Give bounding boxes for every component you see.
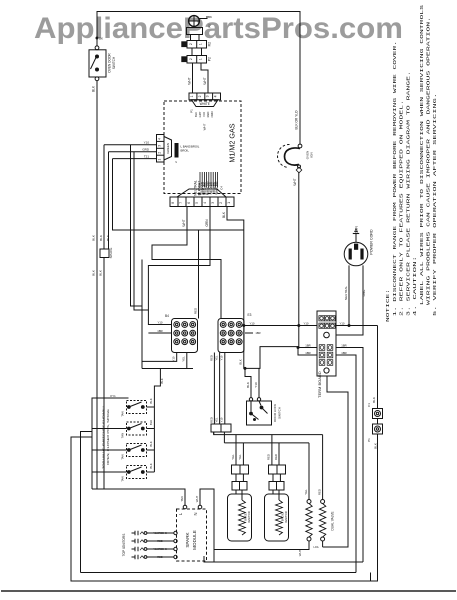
connector P1 WHITE 4-pin [189, 93, 221, 100]
wire YEL to dual valve [308, 443, 310, 500]
spark module left terminals [174, 531, 177, 534]
svg-text:Y10: Y10 [144, 141, 150, 145]
svg-text:BLK: BLK [238, 359, 242, 364]
svg-text:1BR: 1BR [157, 329, 162, 333]
svg-text:BK: BK [208, 15, 212, 19]
svg-text:WHT: WHT [203, 77, 207, 84]
oven lamp B1 [189, 16, 200, 27]
svg-text:6: 6 [187, 202, 191, 204]
wire BLK from door switch down left side [96, 81, 98, 489]
svg-text:NEUTRAL: NEUTRAL [344, 286, 348, 300]
term board mid screw [324, 332, 330, 338]
svg-text:IGNITOR: IGNITOR [284, 511, 288, 523]
svg-text:BLK: BLK [373, 443, 377, 449]
svg-text:4: 4 [157, 138, 161, 140]
wires from green connector [104, 144, 157, 146]
svg-text:1: 1 [190, 95, 194, 97]
svg-text:RED: RED [157, 555, 163, 559]
wire bus Y10 term board [244, 325, 317, 327]
svg-text:BLK: BLK [99, 235, 103, 241]
svg-text:BROIL: BROIL [181, 149, 190, 153]
svg-text:P1: P1 [189, 109, 193, 113]
wire ORN from board to grid1 [148, 207, 210, 311]
svg-text:GRY: GRY [198, 111, 202, 117]
wire WHT pair down to white connector [192, 63, 194, 93]
svg-text:1. DISCONNECT RANGE FROM POWER: 1. DISCONNECT RANGE FROM POWER BEFORE RE… [392, 41, 398, 316]
svg-text:4: 4 [214, 95, 218, 97]
svg-text:TERM BOARD: TERM BOARD [317, 371, 322, 398]
frame line inner [204, 556, 363, 562]
svg-text:YEL: YEL [182, 356, 186, 362]
wires grid2 bottom drops [213, 353, 215, 425]
svg-text:3: 3 [157, 145, 161, 147]
svg-text:E3: E3 [248, 313, 252, 317]
wire Y10 to lock switch [258, 368, 260, 397]
TAN bus left [92, 398, 129, 489]
svg-text:Y10/RED-C: Y10/RED-C [153, 547, 167, 551]
svg-text:YEL: YEL [304, 489, 308, 495]
svg-text:WIRING PROBLEMS CAN CAUSE IMPR: WIRING PROBLEMS CAN CAUSE IMPROPER AND D… [426, 17, 432, 305]
connector grid P3 (left) [172, 319, 198, 353]
svg-text:Y10: Y10 [250, 321, 255, 325]
valve switch 1 [127, 401, 147, 414]
wire grid1 bottom Y10 loop [142, 353, 177, 362]
bus B1 [213, 432, 215, 435]
BAKE ignitor [228, 494, 252, 541]
spark electrode P1 [373, 424, 383, 434]
svg-text:DUAL VALVE: DUAL VALVE [331, 511, 335, 530]
svg-text:2: 2 [219, 202, 223, 204]
svg-text:LOA: LOA [313, 546, 318, 549]
connector row1 BAKE [232, 465, 249, 474]
svg-text:BLK: BLK [149, 463, 153, 468]
svg-text:Y10: Y10 [254, 382, 258, 388]
svg-text:ORN: ORN [205, 219, 209, 227]
svg-text:1: 1 [227, 202, 231, 204]
svg-text:1BR: 1BR [341, 343, 346, 347]
svg-text:YEL: YEL [215, 355, 219, 361]
svg-text:WHT: WHT [293, 178, 297, 185]
svg-text:YEL: YEL [238, 454, 242, 460]
BLK bus right of valve switches [154, 369, 160, 473]
svg-text:RED: RED [267, 454, 271, 460]
term board bottom screw [324, 368, 329, 373]
svg-text:4. CAUTION:: 4. CAUTION: [412, 256, 418, 316]
oven igniter IGN [298, 144, 302, 148]
wire LINE [336, 265, 363, 335]
svg-text:WHT: WHT [187, 77, 191, 84]
svg-text:TOP IGNITORS: TOP IGNITORS [122, 534, 126, 557]
connector P5 8-pin bottom [170, 197, 234, 207]
connector GREEN 4-pin left [157, 135, 165, 163]
wire P1 down right frame [71, 434, 378, 581]
wire grid1 bottom YEL [186, 353, 188, 369]
wire T21 down and right bus [113, 159, 244, 230]
valve switch frame corner [81, 432, 93, 573]
trapezoid BL/WH [177, 189, 226, 197]
wire drop x142 [141, 260, 143, 369]
svg-text:4: 4 [203, 202, 207, 204]
svg-text:T21: T21 [144, 154, 150, 158]
svg-text:B4: B4 [165, 314, 169, 318]
wire Y10 down to P3 grid1 [131, 145, 143, 306]
svg-text:1: 1 [199, 58, 203, 60]
svg-text:1BR: 1BR [305, 343, 310, 347]
wire WHT dual valve bottom [214, 541, 309, 550]
wire term board bottom [323, 376, 348, 547]
wire BLK to C1 [377, 326, 379, 409]
svg-text:TAN: TAN [120, 433, 124, 438]
svg-text:P2: P2 [208, 24, 212, 28]
svg-text:GREEN: GREEN [166, 143, 170, 154]
wire bus y368 [142, 368, 193, 370]
svg-text:BLK: BLK [222, 211, 226, 218]
svg-text:SPARK: SPARK [185, 531, 190, 547]
wire WHT igniter down [298, 172, 300, 326]
svg-text:3: 3 [206, 95, 210, 97]
svg-text:NOTICE:: NOTICE: [385, 289, 391, 322]
term board lower grid [319, 345, 325, 351]
frame stub right [370, 573, 372, 582]
wire RED to dual valve [322, 435, 324, 500]
svg-text:1: 1 [157, 158, 161, 160]
term board top grid [319, 316, 324, 321]
svg-text:2: 2 [157, 152, 161, 154]
svg-text:GRD: GRD [142, 148, 150, 152]
wire dual valve right bottom [322, 541, 324, 547]
page bottom rule [1, 590, 456, 592]
svg-text:BLK: BLK [92, 235, 96, 241]
spark module dashed box [177, 509, 207, 561]
svg-text:ORN: ORN [210, 111, 214, 117]
wire GRD down joins bundle [134, 152, 148, 310]
svg-text:M1/M2 GAS: M1/M2 GAS [228, 123, 237, 162]
wire WHT N [200, 489, 214, 562]
svg-text:BLK: BLK [246, 382, 250, 388]
svg-text:BK: BK [99, 37, 103, 41]
svg-text:N: N [193, 512, 198, 515]
wire WHT from board down-left [152, 207, 221, 319]
connector row2 BAKE [232, 482, 247, 491]
svg-text:WHT: WHT [203, 123, 207, 130]
svg-text:IGNITOR: IGNITOR [247, 511, 251, 523]
svg-text:2: 2 [189, 58, 193, 60]
svg-text:KY1: KY1 [110, 394, 116, 398]
dual valve [307, 500, 311, 504]
trapezoid WHITE [192, 100, 219, 107]
svg-text:1BR: 1BR [305, 351, 310, 355]
svg-text:5: 5 [195, 202, 199, 204]
svg-text:RED: RED [209, 355, 213, 361]
svg-text:SWITCH: SWITCH [277, 407, 281, 419]
svg-text:OPEN, CLOSED POS, SPKGE: OPEN, CLOSED POS, SPKGE [106, 409, 110, 465]
wire GRN ground [355, 234, 357, 243]
svg-text:LABEL ALL WIRES PRIOR TO DISCO: LABEL ALL WIRES PRIOR TO DISCONNECTION W… [419, 5, 425, 305]
svg-text:WHITE: WHITE [200, 102, 210, 106]
wire BLK from board to term board rows [227, 207, 317, 369]
svg-text:BLK: BLK [149, 398, 153, 403]
svg-text:WHT: WHT [298, 550, 302, 557]
svg-text:RED: RED [274, 454, 278, 460]
svg-text:P2: P2 [208, 57, 212, 61]
svg-text:Y10: Y10 [171, 356, 175, 361]
bus B2 [223, 432, 225, 443]
wire x298 WHT to junction [298, 326, 300, 348]
svg-text:BLK: BLK [372, 397, 376, 403]
svg-text:TAN: TAN [120, 476, 124, 481]
svg-text:2: 2 [189, 43, 193, 45]
svg-text:Y10: Y10 [340, 321, 345, 325]
svg-text:IGN: IGN [310, 152, 314, 157]
wire RED grid1 top [198, 230, 200, 319]
svg-text:Y10: Y10 [158, 320, 163, 324]
control board M1/M2 GAS dashed outline [164, 101, 241, 194]
svg-text:YEL: YEL [231, 454, 235, 460]
wire 1BR stub grid2 [245, 332, 253, 334]
svg-text:C4: C4 [220, 186, 224, 190]
wire pins R2 to P2 [191, 48, 193, 56]
svg-text:POWER CORD: POWER CORD [370, 229, 374, 255]
svg-text:BLK OR YLO: BLK OR YLO [294, 110, 298, 129]
svg-text:Y10/RED-C: Y10/RED-C [153, 531, 167, 535]
svg-text:YEL: YEL [215, 417, 219, 423]
svg-text:Y10: Y10 [220, 355, 224, 360]
svg-text:BLK: BLK [92, 270, 96, 276]
svg-text:TAN: TAN [120, 454, 124, 459]
svg-text:RED: RED [193, 307, 197, 314]
connector row1 BROIL [269, 465, 286, 474]
svg-text:Y10: Y10 [220, 417, 224, 422]
svg-text:3: 3 [211, 202, 215, 204]
svg-text:AppliancePartsPros.com: AppliancePartsPros.com [34, 12, 403, 45]
svg-text:RED: RED [209, 417, 213, 423]
labels BLK bake/broil [175, 143, 179, 158]
junction dot node BK [96, 37, 99, 40]
svg-text:Y10: Y10 [304, 321, 309, 325]
svg-text:TOP VALVE SWITCHES SHOWN I-: TOP VALVE SWITCHES SHOWN I- [102, 405, 106, 469]
svg-text:LINE: LINE [362, 290, 366, 297]
svg-text:TAN: TAN [120, 411, 124, 416]
svg-text:BLK: BLK [160, 378, 164, 383]
svg-text:BLK: BLK [149, 420, 153, 425]
svg-text:RED: RED [317, 489, 321, 495]
svg-text:8: 8 [171, 202, 175, 204]
svg-text:TAN: TAN [180, 496, 184, 501]
spark electrode C1 [373, 409, 383, 419]
svg-text:RED: RED [157, 539, 163, 543]
oven door switch SW1 [95, 46, 99, 50]
svg-text:2. REFER ONLY TO FEATURES EQUI: 2. REFER ONLY TO FEATURES EQUIPPED ON MO… [399, 100, 405, 316]
connector row2 BROIL [269, 482, 284, 491]
wire TAN L [92, 489, 185, 505]
svg-text:WHT: WHT [182, 219, 186, 226]
splice [100, 249, 109, 258]
wire NEUTRAL [348, 265, 350, 325]
svg-text:BLK: BLK [106, 235, 110, 241]
frame line inner-left [81, 572, 357, 574]
valve switch 3 [127, 444, 147, 457]
wires into splice [103, 145, 105, 249]
wire below splice [103, 258, 105, 490]
door lock switch [249, 398, 252, 401]
terminal board outline [317, 311, 336, 376]
wire top rail from door switch to igniter drop [97, 12, 300, 145]
svg-text:P1: P1 [367, 438, 371, 442]
svg-text:5. VERIFY PROPER OPERATION AFT: 5. VERIFY PROPER OPERATION AFTER SERVICI… [432, 93, 438, 316]
wire BLK to lock switch [245, 368, 251, 397]
svg-text:BLK: BLK [149, 441, 153, 446]
svg-text:SPLICE: SPLICE [109, 248, 113, 259]
connector R2 [187, 41, 207, 49]
svg-text:RED: RED [206, 112, 210, 118]
svg-text:BLK: BLK [92, 85, 96, 92]
svg-text:R2: R2 [208, 42, 212, 46]
wire YEL drops [235, 435, 237, 465]
svg-text:3. SERVICER PLEASE RETURN WIRI: 3. SERVICER PLEASE RETURN WIRING DIAGRAM… [405, 71, 411, 316]
wire RED drops [271, 435, 273, 465]
svg-text:GRN: GRN [355, 226, 359, 234]
wires term board right 1BR [336, 348, 363, 563]
svg-text:WHT: WHT [195, 496, 199, 503]
connector grid E3 (right) [218, 319, 244, 353]
wire feed grid1 row1 [148, 310, 171, 325]
BROIL ignitor [265, 494, 289, 541]
wire feed grid1 row2 [148, 332, 171, 334]
svg-text:BLK: BLK [194, 112, 198, 117]
power cord plug [344, 242, 368, 266]
connector P2 [187, 56, 207, 64]
svg-text:1BR: 1BR [255, 331, 260, 335]
svg-text:MODULE: MODULE [192, 530, 197, 550]
svg-text:1BR: 1BR [341, 351, 346, 355]
valve switch 2 [127, 422, 147, 435]
svg-text:BLK: BLK [99, 270, 103, 276]
svg-text:C1: C1 [367, 403, 371, 407]
lamp base box [187, 28, 203, 35]
valve switch 4 [127, 466, 147, 479]
svg-text:SWITCH: SWITCH [112, 56, 116, 69]
svg-text:7: 7 [179, 202, 183, 204]
connector small 2-cell [211, 424, 231, 432]
svg-text:1: 1 [199, 43, 203, 45]
svg-text:VIO: VIO [202, 112, 206, 117]
svg-text:2: 2 [198, 95, 202, 97]
